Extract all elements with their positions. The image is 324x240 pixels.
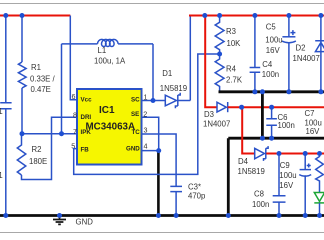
LED (green) — [314, 193, 324, 216]
svg-text:SC: SC — [131, 97, 140, 104]
resistor R2 — [17, 134, 26, 175]
svg-text:6: 6 — [72, 92, 76, 101]
svg-text:R2: R2 — [32, 145, 42, 154]
svg-text:0.33E /: 0.33E / — [30, 75, 56, 84]
node: +12V line dots — [277, 151, 282, 156]
diode D4 1N5819 — [255, 146, 268, 161]
diode D2 1N4007 (vertical) — [315, 16, 324, 92]
svg-text:16V: 16V — [266, 46, 281, 55]
svg-text:D1: D1 — [162, 69, 172, 78]
wire: +12V output line (red) — [266, 153, 324, 155]
svg-text:1: 1 — [0, 107, 3, 116]
resistor R3 10K — [215, 16, 224, 55]
svg-text:Vcc: Vcc — [81, 97, 93, 104]
svg-text:FB: FB — [81, 147, 90, 154]
svg-text:R3: R3 — [226, 27, 236, 36]
wire: L1 right vertical to SC — [152, 44, 154, 101]
svg-text:C5: C5 — [266, 23, 277, 32]
svg-text:100u: 100u — [265, 36, 282, 45]
svg-text:1N4007: 1N4007 — [293, 54, 320, 63]
svg-text:C9: C9 — [280, 161, 290, 170]
capacitor C8 100n — [273, 154, 286, 216]
wire: +V input rail (red, top-left) — [0, 15, 70, 17]
svg-text:MC34063A: MC34063A — [86, 122, 136, 133]
node: ground rail dots — [3, 213, 8, 218]
svg-text:7: 7 — [73, 127, 77, 136]
node: mid bus dots — [252, 89, 257, 94]
wire: D4 feed (red) — [242, 107, 254, 153]
wire: SC pin 1 to D1 — [141, 100, 166, 102]
wire: SE pin 2 jog — [141, 117, 159, 150]
resistor R4 2.7K — [215, 54, 224, 92]
inductor L1 — [62, 39, 154, 46]
svg-text:100n: 100n — [252, 200, 269, 209]
wire: black link vertical — [261, 92, 264, 138]
svg-text:C7: C7 — [305, 109, 315, 118]
wire: R2 bottom loop to DRI pin — [22, 117, 78, 179]
diode D1 1N5819 — [165, 93, 190, 109]
svg-text:8: 8 — [73, 111, 77, 120]
wire: TC pin 3 to C3 — [141, 134, 176, 186]
diode D3 1N4007 — [217, 102, 228, 112]
svg-text:DRI: DRI — [81, 114, 92, 121]
wire: -12V line (red) after D3 — [228, 106, 324, 108]
node: +BATT rail dots — [202, 13, 207, 18]
wire: +BATT rail (red, top-right) — [189, 15, 324, 17]
ground symbol — [53, 216, 66, 225]
svg-text:0.47E: 0.47E — [31, 85, 51, 94]
svg-text:L1: L1 — [98, 46, 107, 55]
resistor (LED series, at edge) — [316, 154, 324, 193]
svg-text:1: 1 — [0, 171, 3, 180]
svg-text:1N5819: 1N5819 — [238, 167, 265, 176]
svg-text:D4: D4 — [238, 157, 249, 166]
wire: IC ground vertical (black) — [157, 151, 160, 216]
svg-text:16V: 16V — [306, 127, 321, 136]
svg-text:R4: R4 — [226, 64, 237, 73]
svg-text:2.7K: 2.7K — [226, 75, 243, 84]
wire: lower ground bus (black) — [228, 138, 324, 215]
wire: D3 feed (red) from +BATT rail — [205, 16, 216, 108]
svg-text:SE: SE — [131, 111, 139, 118]
svg-text:GND: GND — [126, 145, 140, 152]
op-amp IC1 MC34063A body — [77, 89, 142, 165]
wire: mid ground bus (black) under R4 — [219, 90, 324, 93]
node: SC/L1 dot — [151, 98, 156, 103]
svg-text:100n: 100n — [278, 121, 295, 130]
capacitor C6 100n — [266, 107, 277, 138]
wire: Vcc feed vertical — [70, 16, 77, 100]
wire: GND pin 4 stub — [141, 150, 159, 152]
svg-text:470p: 470p — [188, 192, 206, 201]
svg-text:D2: D2 — [296, 44, 306, 53]
wire: D1 cathode up to +BATT rail — [189, 16, 191, 101]
svg-text:10K: 10K — [227, 39, 242, 48]
svg-text:100u, 1A: 100u, 1A — [94, 57, 126, 66]
svg-text:R1: R1 — [31, 63, 41, 72]
resistor R1 — [18, 62, 26, 88]
svg-text:C4: C4 — [262, 60, 273, 69]
svg-text:1N4007: 1N4007 — [203, 120, 230, 129]
svg-text:GND: GND — [76, 218, 94, 227]
node: IPK net dots — [20, 131, 25, 136]
svg-text:4: 4 — [144, 142, 148, 151]
node: R3/R4 divider dot — [217, 52, 222, 57]
capacitor C4 100n — [250, 16, 261, 92]
svg-text:100n: 100n — [262, 70, 279, 79]
svg-text:C3*: C3* — [188, 183, 201, 192]
svg-text:D3: D3 — [204, 110, 214, 119]
svg-text:180E: 180E — [29, 157, 47, 166]
node: -12V line dots — [239, 105, 244, 110]
svg-text:16V: 16V — [279, 181, 294, 190]
svg-text:C8: C8 — [254, 190, 264, 199]
svg-text:IC1: IC1 — [99, 105, 115, 116]
capacitor C5 100u 16V (electrolytic) — [282, 16, 296, 92]
node: input rail dots — [3, 13, 8, 18]
wire: ground rail (black) — [0, 214, 324, 217]
capacitor C3 470p — [170, 186, 182, 215]
wire: FB pin 5 to divider junction — [74, 54, 220, 174]
wire: L1 left vertical — [61, 44, 63, 134]
capacitor C1 (input, label cut off) — [0, 103, 11, 109]
wire: IPK net horizontal — [22, 133, 77, 135]
wire: input left vertical — [5, 16, 7, 216]
capacitor C9 100u 16V (electrolytic) — [299, 154, 311, 216]
svg-text:100u: 100u — [279, 171, 296, 180]
svg-text:1N5819: 1N5819 — [160, 84, 187, 93]
node: GND pin dot — [156, 148, 161, 153]
wire: R1 branch vertical — [21, 16, 23, 134]
